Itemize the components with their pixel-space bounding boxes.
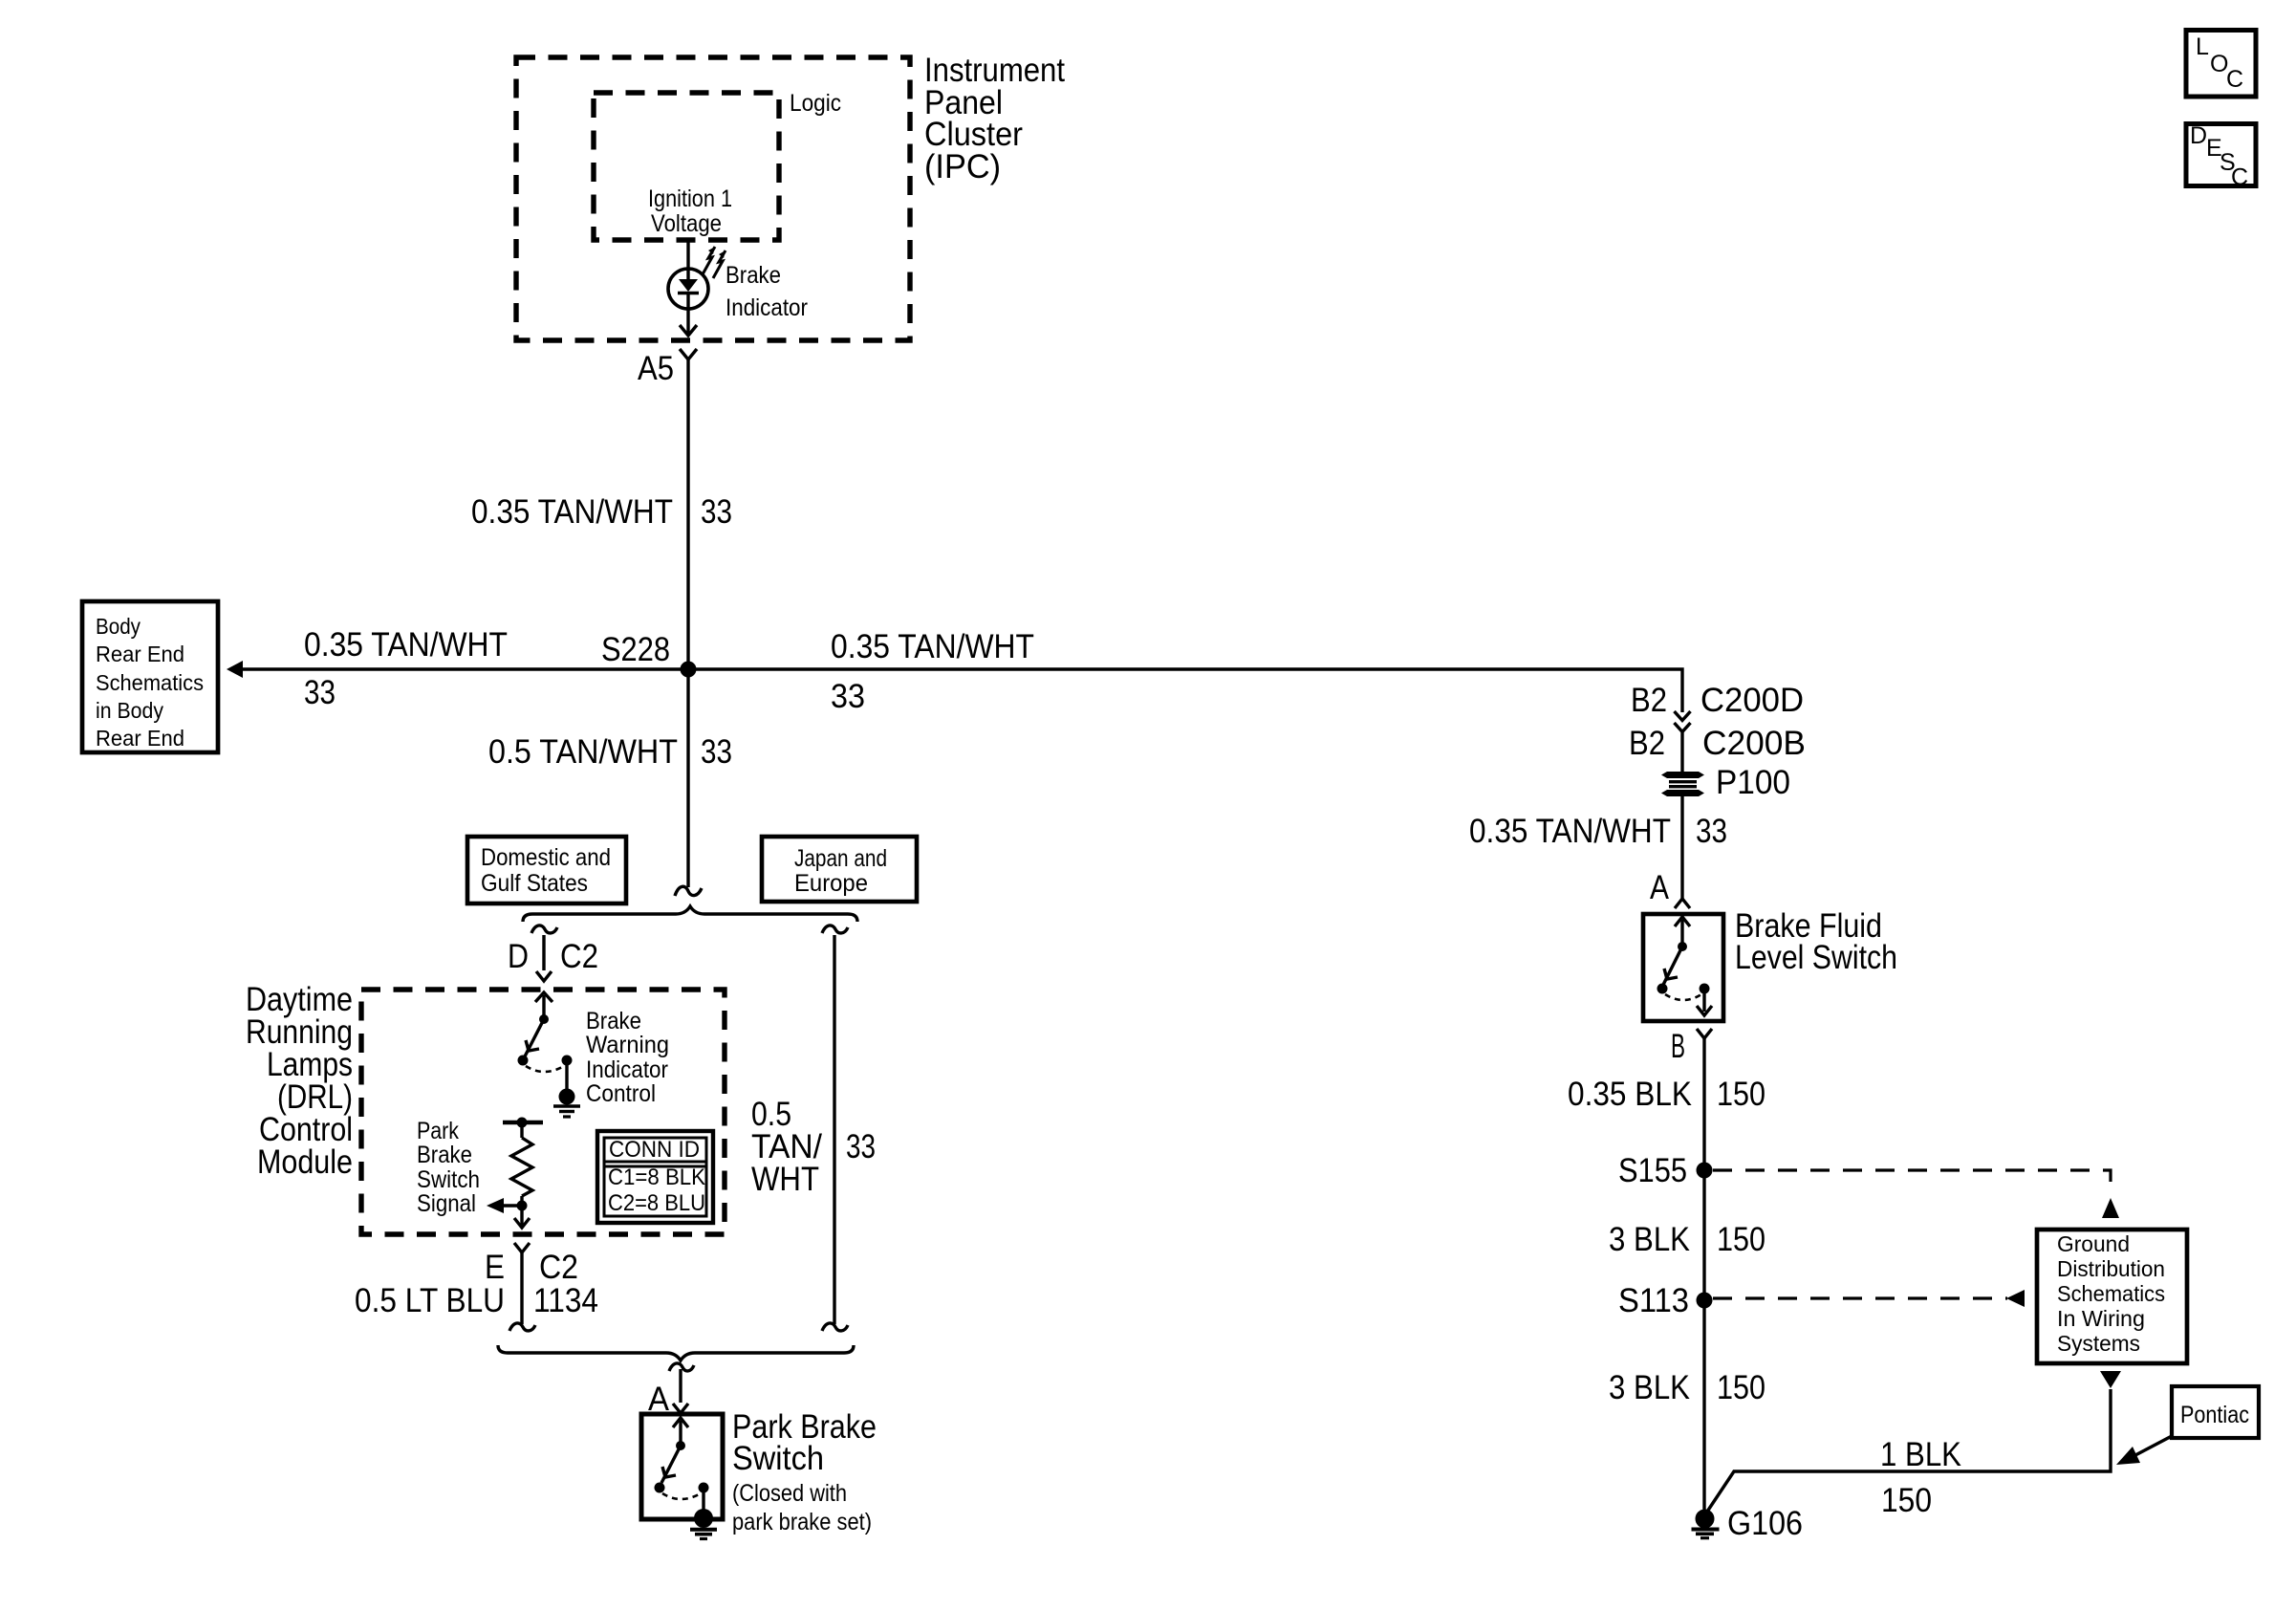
svg-text:(IPC): (IPC) bbox=[924, 148, 1001, 185]
svg-text:33: 33 bbox=[701, 733, 732, 771]
wire label 1 BLK 150 bbox=[1880, 1436, 1961, 1519]
svg-text:C1=8 BLK: C1=8 BLK bbox=[608, 1165, 705, 1190]
svg-text:Control: Control bbox=[586, 1080, 656, 1107]
svg-text:Japan and: Japan and bbox=[794, 845, 887, 872]
wire: A5 to splice S228 bbox=[686, 359, 689, 669]
Brake Warning Indicator Control label bbox=[586, 1008, 669, 1107]
svg-text:Gulf States: Gulf States bbox=[481, 870, 588, 897]
ground symbol (Brake Warning Indicator Control) bbox=[553, 1089, 580, 1118]
svg-text:P100: P100 bbox=[1716, 764, 1790, 801]
svg-text:C2=8 BLU: C2=8 BLU bbox=[608, 1190, 705, 1216]
svg-text:in Body: in Body bbox=[96, 698, 163, 723]
wire: S155 to S113 bbox=[1702, 1170, 1705, 1300]
svg-text:150: 150 bbox=[1717, 1369, 1765, 1406]
svg-text:A5: A5 bbox=[638, 350, 674, 387]
wire: S228 down to brace bbox=[686, 669, 689, 887]
wire label 0.35 TAN/WHT 33 (left run) bbox=[304, 626, 508, 711]
svg-text:Park: Park bbox=[417, 1118, 459, 1144]
Park Brake Switch bbox=[641, 1408, 877, 1535]
wire: brace to connector C2 pin D bbox=[542, 935, 545, 970]
svg-text:150: 150 bbox=[1881, 1482, 1932, 1519]
Japan branch lower squiggle bbox=[822, 1323, 848, 1331]
svg-text:33: 33 bbox=[846, 1128, 876, 1165]
svg-text:0.35 TAN/WHT: 0.35 TAN/WHT bbox=[1469, 813, 1671, 850]
svg-text:Systems: Systems bbox=[2057, 1331, 2140, 1356]
svg-text:C200B: C200B bbox=[1702, 725, 1806, 762]
svg-text:B2: B2 bbox=[1631, 682, 1667, 719]
svg-text:Distribution: Distribution bbox=[2057, 1256, 2165, 1281]
LED light-emission arrows bbox=[703, 247, 726, 278]
IPC label bbox=[924, 52, 1065, 185]
wire: S228 left to Body Rear End reference (arrow) bbox=[242, 667, 688, 670]
wire: P100 to Brake Fluid Level Switch pin A bbox=[1680, 796, 1683, 899]
svg-text:33: 33 bbox=[701, 493, 732, 531]
svg-text:Signal: Signal bbox=[417, 1190, 476, 1217]
wire: pin B to S155 bbox=[1702, 1038, 1705, 1170]
svg-text:Europe: Europe bbox=[794, 870, 868, 897]
svg-text:(Closed with: (Closed with bbox=[732, 1480, 847, 1507]
connector C2 pin D bbox=[508, 938, 598, 981]
wire: S228 right run to C200 bbox=[688, 669, 1682, 712]
wire: S113 to G106 bbox=[1702, 1300, 1705, 1514]
wire break squiggle on main stem bbox=[675, 886, 702, 896]
svg-text:33: 33 bbox=[304, 674, 336, 711]
svg-text:Rear End: Rear End bbox=[96, 726, 184, 751]
svg-text:Level Switch: Level Switch bbox=[1735, 939, 1897, 976]
CONN ID table bbox=[597, 1131, 713, 1223]
svg-text:Indicator: Indicator bbox=[586, 1056, 668, 1083]
svg-text:Brake: Brake bbox=[726, 262, 781, 289]
svg-text:150: 150 bbox=[1717, 1076, 1765, 1113]
svg-text:1 BLK: 1 BLK bbox=[1880, 1436, 1961, 1473]
Logic dashed box bbox=[594, 93, 779, 240]
dashed reference: S155 to Ground Distribution bbox=[1713, 1170, 2119, 1218]
svg-text:33: 33 bbox=[1696, 813, 1727, 850]
svg-text:Module: Module bbox=[257, 1143, 353, 1181]
svg-text:C2: C2 bbox=[539, 1249, 578, 1286]
svg-text:0.35 TAN/WHT: 0.35 TAN/WHT bbox=[831, 628, 1034, 665]
Ignition 1 Voltage label bbox=[648, 185, 732, 237]
ground G106 bbox=[1692, 1505, 1804, 1542]
LOC reference box bbox=[2186, 31, 2256, 98]
Daytime Running Lamps (DRL) Control Module dashed box bbox=[361, 990, 725, 1234]
svg-text:C: C bbox=[2231, 164, 2248, 191]
svg-text:Domestic and: Domestic and bbox=[481, 844, 611, 871]
svg-text:Schematics: Schematics bbox=[2057, 1281, 2165, 1306]
wire label 3 BLK 150 bbox=[1609, 1369, 1765, 1406]
connector pin A bbox=[1650, 869, 1690, 908]
wire: resistor to DRL edge with arrowhead bbox=[520, 1206, 523, 1227]
wire: pin E to brace (0.5 LT BLU 1134) bbox=[520, 1252, 523, 1324]
svg-text:G106: G106 bbox=[1727, 1505, 1803, 1542]
svg-text:C: C bbox=[2226, 66, 2243, 93]
svg-text:WHT: WHT bbox=[751, 1161, 819, 1198]
Instrument Panel Cluster (IPC) dashed box bbox=[516, 57, 910, 340]
svg-text:Pontiac: Pontiac bbox=[2180, 1402, 2249, 1428]
wire label 3 BLK 150 bbox=[1609, 1221, 1765, 1258]
arrowhead at IPC box edge bbox=[680, 325, 697, 336]
Park Brake Switch Signal label bbox=[417, 1118, 480, 1217]
svg-text:B: B bbox=[1671, 1028, 1685, 1065]
wire: Japan and Europe branch (0.5 TAN/WHT 33) bbox=[833, 935, 835, 1324]
svg-text:150: 150 bbox=[1717, 1221, 1765, 1258]
svg-text:L: L bbox=[2196, 33, 2209, 60]
wire: G106 to Ground Distribution (1 BLK 150) bbox=[1707, 1389, 2111, 1512]
Japan and Europe box bbox=[762, 837, 917, 902]
svg-text:0.35 BLK: 0.35 BLK bbox=[1568, 1076, 1692, 1113]
svg-text:Body: Body bbox=[96, 614, 141, 639]
Park Brake Switch Signal resistor inside DRL bbox=[503, 1118, 543, 1211]
ground symbol (Park Brake Switch) bbox=[690, 1509, 717, 1539]
svg-text:CONN ID: CONN ID bbox=[609, 1137, 700, 1163]
svg-text:0.5 TAN/WHT: 0.5 TAN/WHT bbox=[488, 733, 678, 771]
brace joining branches to Park Brake Switch bbox=[498, 1345, 854, 1361]
wire: C200B to P100 bbox=[1680, 730, 1683, 772]
Brake Indicator label bbox=[726, 262, 808, 321]
svg-text:D: D bbox=[2190, 122, 2207, 149]
svg-text:33: 33 bbox=[831, 678, 865, 715]
svg-text:B2: B2 bbox=[1629, 725, 1665, 762]
svg-text:A: A bbox=[1650, 869, 1670, 906]
svg-text:0.35 TAN/WHT: 0.35 TAN/WHT bbox=[304, 626, 508, 664]
svg-text:D: D bbox=[508, 938, 529, 975]
Body Rear End Schematics reference box bbox=[82, 601, 218, 752]
svg-text:1134: 1134 bbox=[533, 1282, 598, 1319]
svg-text:Brake: Brake bbox=[586, 1008, 641, 1034]
Brake Fluid Level Switch bbox=[1643, 907, 1897, 1021]
svg-text:E: E bbox=[485, 1249, 505, 1286]
svg-text:Switch: Switch bbox=[417, 1166, 480, 1193]
svg-text:3 BLK: 3 BLK bbox=[1609, 1221, 1690, 1258]
svg-text:Voltage: Voltage bbox=[651, 210, 722, 237]
splice S113 bbox=[1697, 1293, 1713, 1309]
wire label 0.35 TAN/WHT 33 (right run) bbox=[831, 628, 1034, 715]
Ground Distribution Schematics reference box bbox=[2037, 1230, 2187, 1363]
svg-text:0.35 TAN/WHT: 0.35 TAN/WHT bbox=[471, 493, 673, 531]
wire: LED to IPC pin A5 bbox=[686, 309, 689, 335]
svg-text:3 BLK: 3 BLK bbox=[1609, 1369, 1690, 1406]
connector pin A (Park Brake Switch) bbox=[648, 1363, 694, 1418]
svg-text:Rear End: Rear End bbox=[96, 642, 184, 666]
Brake Warning Indicator Control switch inside DRL bbox=[518, 992, 573, 1092]
svg-text:Ignition 1: Ignition 1 bbox=[648, 185, 732, 212]
switch element inside Brake Fluid Level Switch bbox=[1657, 917, 1713, 1015]
svg-text:S228: S228 bbox=[601, 631, 670, 668]
svg-text:In Wiring: In Wiring bbox=[2057, 1306, 2145, 1331]
Domestic branch lower squiggle bbox=[509, 1323, 535, 1331]
connector C2 pin E bbox=[485, 1243, 578, 1286]
svg-text:Brake: Brake bbox=[417, 1142, 472, 1168]
connector pin B bbox=[1671, 1028, 1712, 1065]
svg-text:Schematics: Schematics bbox=[96, 670, 204, 695]
Domestic and Gulf States box bbox=[467, 837, 626, 903]
splice S155 bbox=[1697, 1163, 1713, 1179]
wire label 0.35 TAN/WHT 33 bbox=[1469, 813, 1727, 850]
svg-text:Switch: Switch bbox=[732, 1440, 824, 1477]
svg-text:park brake set): park brake set) bbox=[732, 1509, 872, 1535]
brace splitting Domestic / Japan branches bbox=[523, 906, 857, 922]
DESC reference box bbox=[2186, 122, 2256, 191]
connector C200B pin B2 bbox=[1629, 723, 1806, 762]
Brake Indicator LED lamp bbox=[668, 269, 708, 309]
svg-text:C2: C2 bbox=[560, 938, 598, 975]
svg-text:Indicator: Indicator bbox=[726, 294, 808, 321]
svg-text:S155: S155 bbox=[1618, 1152, 1687, 1189]
svg-text:Ground: Ground bbox=[2057, 1231, 2130, 1256]
wire label 0.5 TAN/WHT 33 bbox=[488, 733, 732, 771]
Park Brake Switch Signal output arrow bbox=[487, 1198, 522, 1213]
wire label 0.35 BLK 150 bbox=[1568, 1076, 1765, 1113]
wire: Ignition 1 Voltage to Brake Indicator LED bbox=[686, 240, 689, 271]
wire label 0.35 TAN/WHT circuit 33 bbox=[471, 493, 732, 531]
svg-text:Warning: Warning bbox=[586, 1032, 669, 1058]
Pontiac callout box bbox=[2116, 1386, 2259, 1465]
svg-text:C200D: C200D bbox=[1700, 682, 1804, 719]
splice S228 bbox=[681, 662, 697, 678]
svg-text:Logic: Logic bbox=[790, 90, 841, 117]
svg-text:0.5 LT BLU: 0.5 LT BLU bbox=[355, 1282, 505, 1319]
connector C200D pin B2 bbox=[1631, 682, 1804, 721]
dashed reference: S113 to Ground Distribution bbox=[1713, 1290, 2025, 1307]
switch element inside Park Brake Switch bbox=[655, 1418, 709, 1513]
connector pin A5 bbox=[680, 349, 697, 359]
DRL module label bbox=[246, 981, 353, 1181]
grommet P100 bbox=[1661, 764, 1790, 801]
Japan branch squiggle bbox=[822, 925, 848, 933]
svg-text:S113: S113 bbox=[1618, 1282, 1689, 1319]
Domestic branch squiggle bbox=[531, 925, 557, 933]
